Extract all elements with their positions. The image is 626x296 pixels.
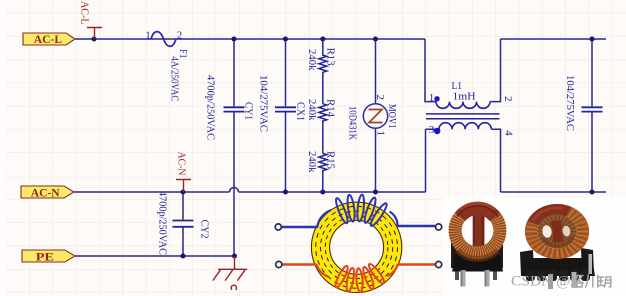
svg-text:R15: R15	[325, 151, 336, 169]
L1 polarity dot top	[434, 96, 439, 101]
svg-text:CX1: CX1	[294, 102, 305, 121]
wire AC-N rail left of hop	[74, 191, 230, 193]
toroid illustration: red lead left	[281, 263, 316, 265]
wire top output rail	[501, 38, 607, 40]
resistor R14	[319, 104, 327, 154]
L1 core lines	[426, 114, 500, 119]
toroid illustration: blue top winding loops	[334, 194, 389, 227]
junction dot CX1 bottom	[283, 190, 288, 195]
svg-text:AC-N: AC-N	[31, 185, 60, 199]
toroid illustration: blue lead left	[280, 226, 317, 228]
svg-text:AC-L: AC-L	[79, 1, 91, 25]
svg-text:1: 1	[375, 131, 387, 137]
svg-text:4A/250VAC: 4A/250VAC	[169, 56, 180, 101]
svg-text:240k: 240k	[306, 99, 317, 121]
port flag AC-N	[21, 185, 74, 199]
wire hop over CY1 vertical	[230, 188, 239, 193]
resistor R13	[319, 39, 327, 104]
svg-text:3: 3	[429, 124, 435, 136]
watermark chinese characters	[572, 275, 611, 287]
junction dot CY2 bottom PE	[181, 254, 186, 259]
svg-text:240k: 240k	[306, 151, 317, 173]
svg-text:CSDN @: CSDN @	[511, 274, 571, 290]
wire L1 pin4 vertical	[491, 129, 500, 192]
capacitor CX2 output	[582, 107, 603, 111]
svg-text:1: 1	[145, 30, 151, 42]
wire CX1 top lead	[285, 39, 287, 106]
wire L1 pin2 vertical	[490, 39, 501, 102]
junction dot R13 top	[320, 37, 325, 42]
wire bottom output rail	[501, 191, 607, 193]
svg-text:AC-L: AC-L	[34, 32, 63, 46]
svg-text:2: 2	[374, 95, 386, 101]
junction dot R15 bottom	[320, 190, 325, 195]
wire L1 pin1 vertical	[425, 39, 436, 102]
toroid illustration: terminal circles	[275, 224, 281, 230]
junction dot CY1 top	[232, 37, 237, 42]
toroid illustration: red bottom winding loops	[333, 262, 386, 292]
junction dot output cap bottom	[590, 190, 595, 195]
svg-text:104/275VAC: 104/275VAC	[564, 75, 575, 131]
junction dot AC-L tap	[92, 37, 97, 42]
svg-text:2: 2	[177, 30, 183, 42]
net label AC-L tap	[87, 28, 102, 40]
varistor MOV1 Z symbol	[369, 110, 383, 123]
wire L1 pin3 vertical	[426, 129, 440, 192]
capacitor CX1	[275, 107, 296, 111]
toroid illustration: blue lead right	[397, 225, 435, 227]
wire MOV bottom lead	[375, 129, 377, 193]
varistor MOV1 circle	[363, 104, 387, 128]
svg-text:1mH: 1mH	[453, 91, 476, 102]
wire MOV top lead	[375, 39, 377, 104]
svg-text:R14: R14	[325, 99, 336, 117]
svg-text:4700p/250VAC: 4700p/250VAC	[157, 191, 168, 255]
svg-text:104/275VAC: 104/275VAC	[258, 75, 269, 132]
inductor L1 top coil	[436, 102, 490, 109]
svg-text:4: 4	[503, 130, 515, 136]
ground symbol PE	[213, 256, 248, 290]
port flag AC-L	[23, 32, 75, 46]
toroid illustration: yellow core ring	[311, 202, 401, 292]
wire CY1 bottom lead to PE	[233, 112, 235, 256]
wire top AC-L rail	[75, 38, 425, 40]
svg-text:PE: PE	[36, 249, 54, 263]
svg-text:1: 1	[429, 92, 435, 104]
net label AC-N tap	[176, 180, 191, 193]
junction dot MOV bottom	[373, 190, 378, 195]
junction dot MOV top	[373, 37, 378, 42]
svg-text:CY1: CY1	[243, 102, 254, 120]
capacitor CY2	[173, 221, 194, 227]
wire output cap bottom lead	[591, 112, 593, 192]
photo: toroid inductor 2	[520, 201, 595, 289]
wire CY2 top lead	[182, 192, 184, 220]
port flag PE	[22, 249, 75, 263]
toroid illustration: red winding end curls	[316, 264, 398, 277]
svg-text:CY2: CY2	[199, 220, 210, 239]
junction dot CX1 top	[283, 37, 288, 42]
junction dot CY2 top	[181, 190, 186, 195]
toroid illustration: red lead right	[398, 263, 435, 265]
wire output cap top lead	[591, 39, 593, 106]
wire CY2 bottom lead	[182, 227, 184, 256]
junction dot ground PE	[232, 254, 237, 259]
wire AC-N rail right of hop	[239, 191, 426, 193]
svg-text:4700p/250VAC: 4700p/250VAC	[205, 75, 216, 140]
svg-text:2: 2	[502, 96, 514, 102]
svg-text:MOV1: MOV1	[386, 104, 397, 129]
L1 polarity dot bottom	[434, 128, 440, 134]
capacitor CY1	[224, 107, 245, 111]
wire CY1 top lead	[233, 39, 235, 106]
svg-text:AC-N: AC-N	[176, 152, 188, 176]
resistor R15	[319, 153, 327, 192]
wire PE rail	[75, 255, 235, 257]
photo: toroid inductor 1	[449, 202, 507, 287]
photo background patch	[443, 197, 626, 296]
svg-text:R13: R13	[325, 48, 336, 66]
left edge light strip	[0, 0, 7, 296]
svg-text:10D431K: 10D431K	[347, 106, 358, 141]
wire CX1 bottom lead	[285, 112, 287, 192]
svg-text:240k: 240k	[306, 49, 317, 71]
junction dot output cap top	[590, 37, 595, 42]
inductor L1 bottom coil	[439, 123, 491, 130]
toroid illustration: blue winding end curls	[317, 210, 398, 228]
fuse F1	[151, 32, 176, 47]
